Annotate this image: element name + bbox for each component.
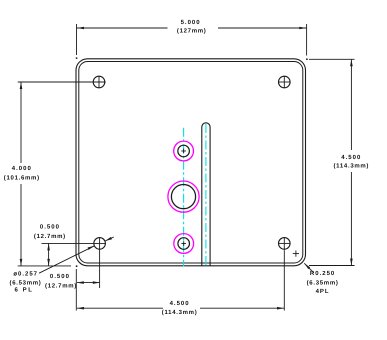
dimension 0.500 horizontal (below plate) [77,282,99,284]
svg-text:ø0.257: ø0.257 [13,270,38,277]
svg-text:(6.35mm): (6.35mm) [307,280,339,287]
center hole large [171,185,195,209]
svg-text:0.500: 0.500 [50,273,70,280]
svg-text:(101.6mm): (101.6mm) [4,175,40,182]
svg-text:6 PL: 6 PL [14,287,33,294]
hole top-left [93,76,105,88]
center hole small bottom [178,238,190,250]
slot [202,123,210,266]
svg-text:4PL: 4PL [316,288,330,295]
centerline of hole column [183,128,185,267]
dimension 4.500 bottom [76,250,284,310]
plate outer outline [76,59,306,266]
hole bottom-left [94,238,106,250]
svg-text:4.500: 4.500 [341,154,361,161]
hole bottom-right [279,238,291,250]
dimension 4.000 left [18,82,106,266]
svg-text:5.000: 5.000 [181,19,201,26]
dimension 4.500 right [309,59,355,265]
hole top-right [279,76,291,88]
svg-text:4.500: 4.500 [170,300,190,307]
centerline of slot [205,124,207,267]
svg-text:(114.3mm): (114.3mm) [333,162,369,169]
plate inner outline [79,62,303,264]
svg-text:0.500: 0.500 [40,224,60,231]
svg-text:(12.7mm): (12.7mm) [34,233,66,240]
svg-text:R0.250: R0.250 [310,270,335,277]
svg-text:(114.3mm): (114.3mm) [162,309,198,316]
dimension 5.000 top [77,24,307,56]
center hole small top [178,145,190,157]
svg-text:4.000: 4.000 [12,165,32,172]
svg-text:(12.7mm): (12.7mm) [45,283,77,290]
svg-text:(127mm): (127mm) [177,27,207,34]
dimension 0.500 vertical (lower left) [42,243,106,265]
diameter callout 0.257 leader [39,246,95,273]
radius callout R0.250 [293,253,299,255]
svg-text:(6.53mm): (6.53mm) [10,280,42,287]
